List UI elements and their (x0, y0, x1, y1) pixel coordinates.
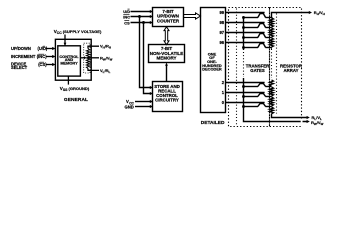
svg-text:INCREMENT: INCREMENT (11, 54, 36, 59)
wire chain upper-gap stub (271, 47, 273, 49)
svg-text:SELECT: SELECT (11, 65, 28, 70)
wire INC input arrow (46, 55, 56, 58)
resistor array dashed outline (270, 8, 302, 127)
svg-text:(INC): (INC) (37, 54, 47, 59)
svg-text:CC: CC (57, 31, 62, 35)
dotted continuation line (right of chain) (276, 14, 278, 114)
resistor R98 (270, 18, 274, 27)
wire INC to counter (131, 15, 154, 18)
net label U/D-bar (123, 9, 130, 14)
border clearing patches (301, 119, 303, 126)
svg-text:99: 99 (219, 10, 224, 15)
net label UP/DOWN (U/D-bar) (11, 46, 48, 51)
bus arrow counter to decoder (184, 13, 201, 19)
net label INC-bar (123, 14, 130, 19)
resistor R0 bottom segment (270, 107, 274, 114)
svg-text:MEMORY: MEMORY (156, 56, 176, 61)
svg-text:COUNTER: COUNTER (157, 18, 180, 23)
svg-text:(SUPPLY VOLTAGE): (SUPPLY VOLTAGE) (63, 29, 102, 34)
svg-text:DETAILED: DETAILED (201, 120, 225, 126)
transfer gate Q96 channel (242, 44, 271, 49)
svg-text:CS: CS (124, 20, 130, 25)
wire CS drop to store/recall (144, 23, 151, 94)
transfer gate Q97 channel (242, 34, 271, 39)
bus arrow counter to memory (bidirectional) (164, 27, 169, 45)
7-bit non-volatile memory block (149, 45, 185, 63)
resistor R2 (270, 87, 274, 96)
wire U/D input arrow (46, 47, 56, 50)
dotted continuation line (gate column) (236, 9, 238, 126)
svg-text:97: 97 (219, 30, 224, 35)
wire RL/VL output arrow (272, 114, 310, 119)
transfer gate Q2 channel (242, 84, 271, 88)
resistor R97 (270, 28, 274, 37)
svg-text:MEMORY: MEMORY (60, 61, 78, 66)
wire VL/RL output (88, 69, 99, 71)
svg-text:GATES: GATES (250, 68, 265, 73)
net label DEVICE SELECT (CS-bar) (11, 62, 47, 71)
transfer gate Q1 channel (242, 94, 271, 98)
potentiometer resistor RP (86, 49, 89, 69)
wiper arrow (80, 56, 86, 59)
svg-text:SS: SS (63, 88, 68, 92)
svg-text:UP/DOWN: UP/DOWN (11, 46, 31, 51)
wire store/recall to memory (165, 63, 168, 82)
wire RW/VW wiper output (88, 57, 99, 59)
label TRANSFER GATES (245, 62, 270, 73)
resistor R96 (270, 38, 274, 47)
power Vcc supply pin (54, 29, 102, 46)
label RESISTOR ARRAY (280, 63, 303, 72)
power Vcc input to store block (126, 99, 153, 105)
svg-text:GND: GND (125, 104, 134, 109)
resistor R3 (270, 80, 274, 86)
control and memory block (58, 46, 81, 76)
resistor R1 (270, 97, 274, 106)
wire CS input arrow (46, 63, 56, 66)
wire CS to counter (131, 21, 154, 24)
resistor R99 top segment (270, 17, 274, 21)
wire RH/VH output arrow (272, 11, 313, 18)
device outer box (general) (55, 39, 91, 80)
store and recall control circuitry block (153, 82, 183, 112)
transfer gate Q0 channel (242, 104, 271, 108)
net label INCREMENT (INC-bar) (11, 54, 47, 59)
transfer gate Q99 channel (242, 14, 271, 19)
svg-text:GENERAL: GENERAL (64, 97, 88, 103)
svg-text:INC: INC (123, 14, 130, 19)
svg-text:(GROUND): (GROUND) (69, 86, 90, 91)
wire INC drop to store/recall (140, 17, 151, 88)
one of one-hundred decoder block (201, 8, 226, 113)
svg-text:ARRAY: ARRAY (284, 68, 299, 73)
transfer gates dashed outline (229, 8, 270, 127)
wiper bus wire (243, 18, 245, 51)
svg-text:DECODER: DECODER (202, 67, 222, 72)
wire RW/VW output arrow (307, 120, 310, 123)
transfer gate Q98 channel (242, 24, 271, 29)
net label CS-bar (124, 20, 130, 25)
wire U/D to counter (131, 10, 154, 13)
svg-text:U/D: U/D (123, 9, 130, 14)
wire VH/RH output (88, 46, 99, 48)
svg-text:CIRCUITRY: CIRCUITRY (155, 98, 179, 103)
svg-text:98: 98 (219, 20, 224, 25)
svg-text:96: 96 (219, 40, 224, 45)
resistor array dashed outline (general) (84, 43, 90, 73)
power GND input to store block (125, 104, 154, 109)
resistor chain continuation dots (271, 49, 273, 78)
7-bit up/down counter block (153, 8, 184, 27)
power Vss ground pin (60, 76, 90, 92)
